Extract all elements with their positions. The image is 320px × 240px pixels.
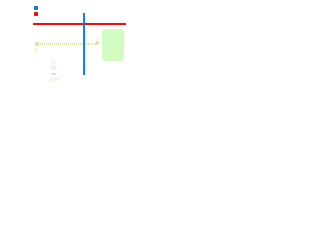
grey-purple dash	[51, 73, 56, 75]
yellow annotation right glyph: blob	[96, 41, 99, 43]
blue vertical line	[83, 13, 85, 75]
blue legend square	[34, 6, 38, 10]
yellow annotation right glyph: top dash	[97, 38, 99, 39]
yellow annotation right glyph: foot	[96, 44, 98, 45]
green rectangle zone	[102, 29, 124, 62]
three yellow dots	[51, 78, 53, 81]
yellow annotation left glyph: dash 1	[35, 48, 37, 49]
red horizontal trend line	[33, 23, 125, 25]
faint lavender square 2	[51, 65, 56, 70]
yellow annotation left glyph: blob	[35, 42, 39, 46]
red legend square	[34, 12, 38, 16]
yellow annotation right glyph: diagonal stroke	[94, 41, 99, 46]
faint lavender square 1	[51, 60, 56, 64]
yellow dotted measure line	[40, 43, 93, 45]
yellow annotation left glyph: dash 2	[35, 50, 37, 51]
